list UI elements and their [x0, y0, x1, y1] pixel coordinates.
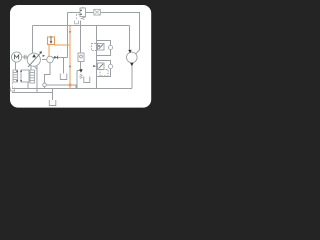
solenoid coil element: [13, 70, 18, 82]
wire: right supply down to motor: [129, 26, 131, 51]
aux charge pump P2: [47, 56, 54, 63]
dashed drain bottom-left with tank: [10, 83, 14, 92]
white schematic card: [10, 5, 151, 108]
wire: check valve to drain tank: [77, 62, 81, 89]
orange junction dot: [69, 84, 72, 87]
spring column of valve block: [30, 70, 35, 83]
wire: tank drop line: [52, 89, 54, 101]
wire: center column V1 bottom to check valve: [80, 21, 82, 54]
flow marker lower on orange riser: [69, 66, 72, 69]
relief assembly A2: [97, 61, 113, 77]
wire: pump outlet diagonal: [34, 65, 37, 69]
check arrow on aux output: [54, 56, 57, 59]
tank bottom center: [49, 100, 56, 106]
relief assembly A1: [92, 41, 113, 56]
wire: pump to valve block: [36, 66, 38, 93]
wire: aux pump bottom drain: [45, 63, 51, 89]
valve body box: [21, 70, 29, 82]
wire: cooler to right side down: [100, 13, 139, 51]
flow marker top on orange riser: [69, 31, 72, 34]
wire: shaft pump to aux pump: [42, 59, 47, 61]
wire: diagonal into motor top-right: [136, 50, 140, 54]
wire: pump to spring column: [30, 66, 32, 70]
wire: lower left rail: [12, 92, 53, 94]
wire: bottom return rail: [12, 88, 132, 90]
main variable pump P1: [27, 51, 45, 67]
wire: motor return to bottom rail: [131, 63, 133, 89]
shaft coupling: [22, 55, 27, 59]
drain arrow into tank: [79, 69, 82, 73]
relief valve V1 top: [80, 7, 86, 20]
drain of V1 (dashed with tank): [75, 15, 80, 24]
wire: pump pressure riser: [32, 26, 34, 54]
wire: relief manifold main vertical: [96, 26, 98, 89]
wire: main top rail: [33, 25, 130, 27]
arrow inside V2: [50, 36, 52, 42]
junction node at mid rail: [43, 83, 47, 87]
check valve center: [78, 53, 84, 62]
wire: motor M to left element: [14, 62, 16, 70]
spring under drain arrow: [80, 74, 83, 79]
tank under aux branch: [60, 74, 67, 80]
wire: aux pump output to tank branch: [53, 58, 67, 74]
orange pilot valve V2: [48, 37, 55, 45]
cooler/filter box: [94, 9, 101, 15]
orange line V2 to aux pump: [48, 45, 50, 57]
orange line V2 to riser: [55, 44, 71, 46]
hydraulic motor bottom right: [127, 50, 138, 66]
wire: mid rail with corner: [45, 85, 77, 89]
orange charge riser: [69, 26, 71, 89]
tank under center drain: [84, 77, 90, 83]
wire: top pilot line valve V1 to cooler: [86, 12, 94, 14]
wire: V1 left port down to rail and to tank line: [68, 13, 81, 58]
electric motor M: [12, 52, 22, 62]
wire: valve block bottom to rail: [27, 83, 29, 89]
